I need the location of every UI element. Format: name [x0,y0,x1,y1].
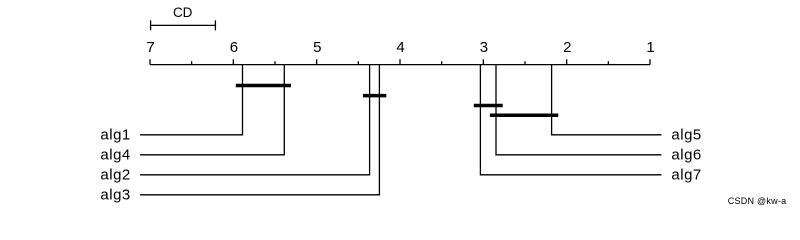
svg-text:CSDN @kw-a: CSDN @kw-a [728,196,787,206]
svg-text:alg3: alg3 [100,186,130,203]
drop line alg3 [140,65,379,195]
svg-text:alg6: alg6 [671,146,701,163]
major ticks [150,59,650,64]
axis line [150,64,650,66]
drop line alg6 [496,65,662,155]
drop line alg5 [552,65,662,135]
drop line alg7 [480,65,661,175]
clique bar alg2-alg3 [363,94,386,98]
svg-text:4: 4 [396,39,404,56]
drop line alg2 [140,65,370,175]
svg-text:3: 3 [480,39,488,56]
svg-text:5: 5 [313,39,321,56]
svg-text:alg4: alg4 [100,146,130,163]
minor ticks [192,61,609,64]
svg-text:6: 6 [230,39,238,56]
svg-text:alg7: alg7 [671,166,701,183]
drop line alg4 [140,65,284,155]
drop line alg1 [140,65,242,135]
CD bracket [151,20,216,30]
clique bar alg6-alg5 [490,114,558,118]
svg-text:CD: CD [173,5,193,20]
clique bar alg7-alg6 [474,104,503,108]
svg-text:7: 7 [146,39,154,56]
svg-text:alg1: alg1 [100,126,130,143]
svg-text:alg5: alg5 [671,126,701,143]
svg-text:1: 1 [646,39,654,56]
clique bar alg1-alg4 [236,84,291,88]
svg-text:2: 2 [563,39,571,56]
svg-text:alg2: alg2 [100,166,130,183]
